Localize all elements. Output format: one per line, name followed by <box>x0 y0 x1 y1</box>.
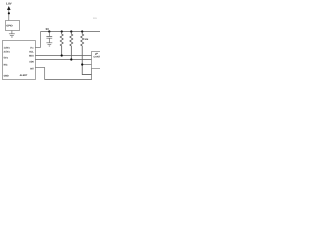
wire VCC vertical from rail <box>40 32 42 48</box>
svg-text:INT: INT <box>30 67 34 70</box>
junction dot SCL R1 <box>61 54 63 56</box>
pin label 2.5VIN <box>4 51 11 54</box>
junction dot rail at R1 <box>61 30 63 32</box>
junction dot rail at R2 <box>70 30 72 32</box>
pin label 1.8VIN <box>4 46 11 49</box>
svg-text:5V: 5V <box>46 27 50 31</box>
svg-text:1.8V: 1.8V <box>6 3 12 6</box>
pin label SCL <box>29 50 34 53</box>
svg-text:N/C: N/C <box>4 64 8 67</box>
supply arrow 1.8V <box>7 6 11 10</box>
node 5V supply label <box>46 27 50 31</box>
ground below C1 <box>46 43 52 46</box>
pin label A0 <box>29 61 34 64</box>
controller box right <box>92 52 104 69</box>
GPIO controller box <box>6 21 20 31</box>
wire ALERT stub to controller <box>82 64 91 66</box>
wire SCL row <box>35 55 91 57</box>
wire SDA row <box>35 59 91 61</box>
resistor R3 pull-up ALERT <box>81 32 92 75</box>
resistor R1 pull-up SCL <box>60 32 63 56</box>
pin label INT <box>30 67 34 70</box>
svg-text:SCL: SCL <box>29 50 34 53</box>
wire GPIO box to ground <box>11 31 13 34</box>
svg-text:GND: GND <box>4 74 9 77</box>
wire ALERT route <box>35 68 91 80</box>
junction dot rail at C1 <box>48 30 50 32</box>
svg-text:SDA: SDA <box>29 54 34 57</box>
figure number label <box>93 17 98 20</box>
wire 5V top rail <box>41 31 101 33</box>
pin label 5VIN <box>4 57 9 60</box>
value label 10k R3 <box>84 38 89 41</box>
pin label GND <box>4 74 9 77</box>
pin label ALERT <box>20 74 28 77</box>
svg-text:CONT: CONT <box>94 56 101 59</box>
wire VCC pin row <box>35 47 40 49</box>
svg-text:GPIO: GPIO <box>6 25 12 28</box>
capacitor C1 <box>46 32 52 43</box>
pin label VCC <box>30 46 35 49</box>
svg-text:AD0: AD0 <box>29 61 34 64</box>
junction dot rail at R3 <box>81 30 83 32</box>
svg-text:ALERT: ALERT <box>20 74 28 77</box>
wire supply to GPIO box <box>8 10 10 21</box>
pin label SDA <box>29 54 34 57</box>
junction dot SDA R2 <box>70 58 72 60</box>
node 1.8V supply label <box>6 3 12 6</box>
resistor R2 pull-up SDA <box>70 32 73 60</box>
junction dot ALERT R3 <box>81 63 83 65</box>
pin label N/C <box>4 64 8 67</box>
svg-text:µP: µP <box>95 53 98 56</box>
IC U1 box <box>3 41 36 80</box>
junction dot on supply wire <box>8 12 10 14</box>
ground below GPIO box <box>9 34 15 37</box>
